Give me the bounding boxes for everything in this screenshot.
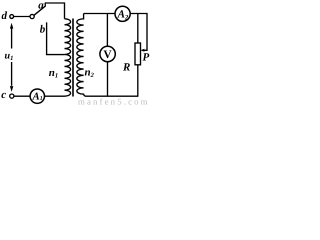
resistor bottom lead xyxy=(137,65,139,96)
u1 arrow head down xyxy=(10,86,13,92)
ammeter A1 circle xyxy=(30,89,44,103)
u1 arrow head up xyxy=(10,23,13,29)
svg-text:A: A xyxy=(117,9,125,21)
svg-text:d: d xyxy=(2,10,8,22)
svg-text:b: b xyxy=(40,24,46,36)
wire a to transformer primary top xyxy=(45,3,65,19)
resistor R body xyxy=(135,43,141,65)
terminal d xyxy=(10,15,14,19)
voltmeter V circle xyxy=(100,46,115,61)
u1 arrow shaft upper xyxy=(11,28,13,49)
svg-text:2: 2 xyxy=(124,14,129,21)
wire c to ammeter A1 xyxy=(14,95,30,97)
wire secondary top to A2 xyxy=(84,13,115,15)
transformer secondary winding n2 xyxy=(77,14,86,97)
contact a stub xyxy=(44,3,46,7)
switch blade S xyxy=(34,6,45,15)
bottom wire secondary to R xyxy=(86,95,139,97)
contact b wire and tap xyxy=(47,22,65,54)
svg-text:1: 1 xyxy=(40,96,43,102)
voltmeter branch bottom xyxy=(107,62,109,97)
switch pivot terminal xyxy=(30,14,34,18)
transformer primary winding n1 xyxy=(65,19,71,96)
svg-text:R: R xyxy=(122,62,130,74)
svg-text:c: c xyxy=(1,89,6,101)
wire d to switch pivot xyxy=(14,16,30,18)
svg-text:A: A xyxy=(32,92,40,103)
svg-text:P: P xyxy=(143,52,150,64)
svg-text:manfen5.com: manfen5.com xyxy=(78,97,148,105)
transformer core xyxy=(72,19,74,97)
wire junction to resistor top xyxy=(137,14,139,44)
wire A2 to right corner and slider branch xyxy=(130,14,147,51)
slider arrow head P xyxy=(140,49,144,52)
terminal c xyxy=(10,94,14,98)
svg-text:V: V xyxy=(103,49,112,61)
u1 arrow shaft lower xyxy=(11,62,13,86)
ammeter A2 circle xyxy=(115,6,130,21)
svg-text:a: a xyxy=(38,0,44,12)
wire A1 to primary bottom xyxy=(44,95,64,97)
voltmeter branch top xyxy=(106,14,108,47)
